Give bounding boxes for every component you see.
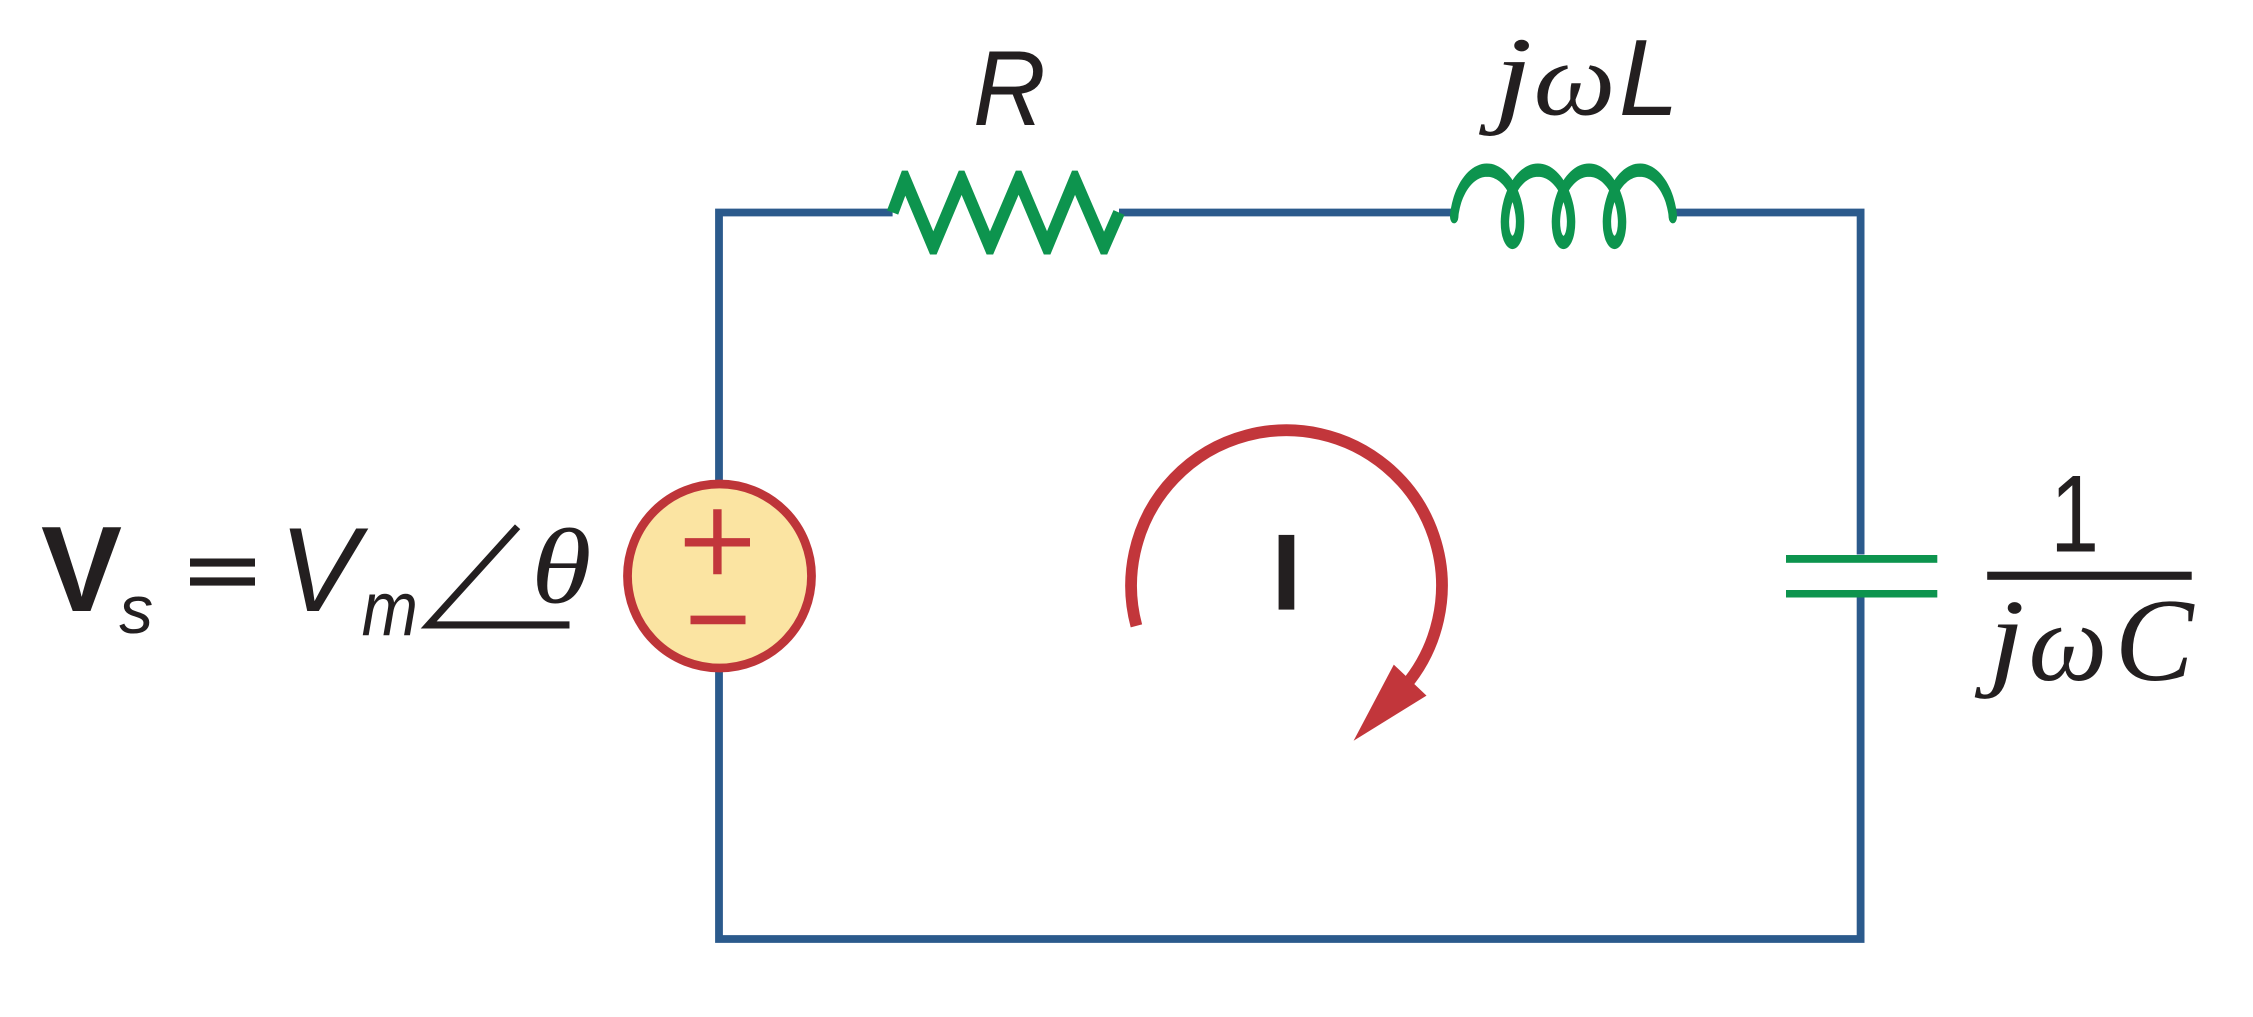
source value label Vs = Vm angle theta [41, 501, 591, 652]
svg-text:m: m [362, 567, 418, 652]
svg-text:s: s [119, 573, 153, 648]
inductor L coil [1454, 170, 1673, 242]
svg-text:1: 1 [2050, 453, 2099, 576]
resistor label R [973, 28, 1046, 147]
voltage source Vs circle [628, 484, 812, 668]
capacitor label 1/jωC fraction [1975, 453, 2195, 706]
voltage source plus terminal [685, 509, 750, 574]
svg-text:ω: ω [2029, 582, 2108, 705]
wire top-middle segment (resistor to inductor) [1119, 209, 1452, 217]
wire top-right segment (inductor to capacitor top plate) [1674, 213, 1860, 555]
svg-text:ω: ω [1534, 21, 1616, 138]
voltage source minus terminal [691, 616, 746, 625]
svg-text:V: V [279, 504, 369, 637]
mesh current label I [1279, 535, 1295, 610]
svg-text:C: C [2115, 575, 2195, 706]
svg-text:L: L [1619, 17, 1679, 138]
wire top-left segment (source top to resistor) [719, 213, 893, 482]
svg-text:θ: θ [531, 507, 591, 626]
capacitor C plates [1786, 555, 1937, 598]
inductor label jωL [1478, 15, 1679, 138]
svg-text:R: R [973, 28, 1046, 147]
mesh current arrow I (clockwise) [1131, 430, 1442, 740]
svg-text:V: V [41, 501, 122, 637]
wire bottom segment (capacitor bottom plate to source bottom) [719, 598, 1861, 940]
